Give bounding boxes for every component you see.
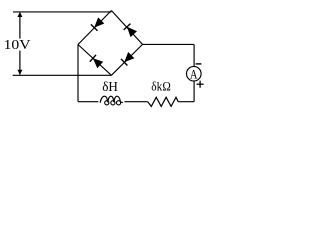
inductor coil (100, 96, 123, 102)
wire left vertical (77, 45, 79, 102)
label minus (196, 63, 202, 65)
wire top rail (13, 11, 111, 13)
wire lower-left rail to bridge bottom node (13, 74, 112, 76)
wire bridge edge L-B (78, 45, 111, 76)
wire right horizontal from bridge to corner (143, 43, 195, 45)
svg-text:A: A (190, 67, 198, 82)
diode D2 top-right (points up-left toward T) (124, 24, 137, 37)
wire bridge edge L-T (78, 11, 111, 45)
svg-text:10V: 10V (4, 37, 31, 52)
wire bridge edge T-R (111, 11, 142, 45)
svg-text:δH: δH (102, 79, 118, 94)
voltage arrow 10V dimension (4, 12, 31, 75)
inductor loop rings (105, 101, 121, 105)
label plus (197, 81, 204, 88)
wire bottom rail right segment (178, 101, 194, 103)
resistor zigzag (148, 97, 179, 106)
diode D3 bottom-left (points up-left toward L) (90, 55, 103, 68)
diode D1 top-left (points down-left toward L) (91, 17, 104, 30)
wire right vertical upper (193, 44, 195, 66)
wire bottom rail mid segment (125, 101, 148, 103)
wire bridge edge B-R (111, 44, 142, 75)
svg-text:δkΩ: δkΩ (151, 78, 171, 93)
diode D4 bottom-right (points down-left toward B) (121, 52, 134, 66)
wire bottom rail left segment (78, 101, 98, 103)
ammeter A (187, 66, 202, 81)
wire right vertical lower (193, 81, 195, 102)
